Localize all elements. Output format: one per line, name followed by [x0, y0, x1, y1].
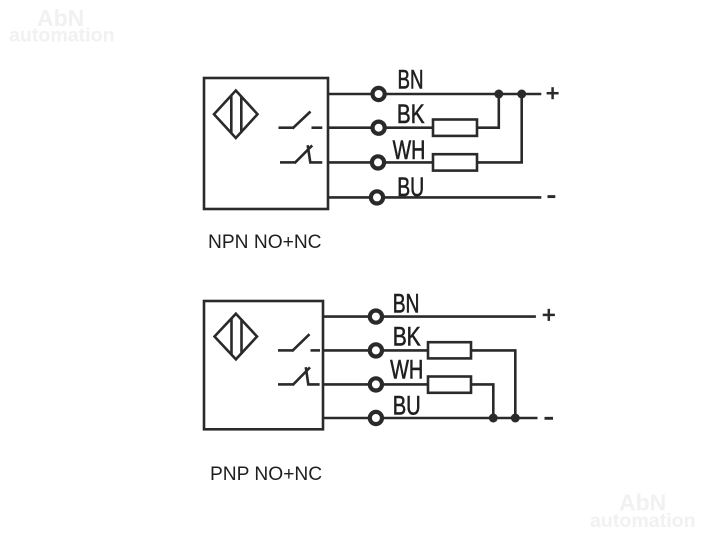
svg-text:WH: WH: [393, 135, 426, 165]
svg-text:WH: WH: [390, 355, 423, 385]
svg-text:BK: BK: [393, 322, 421, 352]
svg-text:automation: automation: [590, 510, 696, 532]
svg-text:NPN NO+NC: NPN NO+NC: [208, 232, 322, 253]
svg-text:BN: BN: [398, 65, 424, 95]
svg-text:BN: BN: [393, 288, 420, 318]
svg-text:BU: BU: [397, 172, 424, 202]
svg-text:BU: BU: [393, 391, 421, 421]
svg-text:PNP NO+NC: PNP NO+NC: [210, 464, 322, 485]
svg-text:BK: BK: [397, 99, 425, 129]
svg-text:automation: automation: [9, 25, 115, 47]
